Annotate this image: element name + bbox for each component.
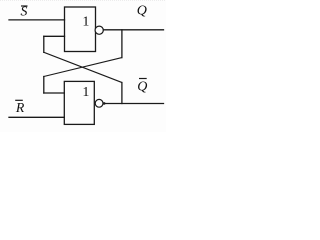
wire right vertical to Q-bar output — [121, 83, 123, 104]
wire left vertical to U2 upper input — [43, 77, 45, 94]
svg-text:Q: Q — [137, 3, 147, 18]
wire feedback diagonal A — [44, 52, 122, 82]
wire S input — [9, 19, 65, 21]
svg-text:1: 1 — [82, 15, 89, 30]
U1 inversion bubble — [95, 26, 103, 34]
decorative top dotted edge — [0, 0, 165, 1]
NAND gate U1 body — [65, 7, 96, 52]
wire feedback diagonal B — [44, 58, 122, 77]
svg-text:Q: Q — [137, 79, 147, 94]
wire right vertical from Q output — [121, 30, 123, 58]
wire Q output — [103, 29, 163, 31]
svg-text:R: R — [15, 100, 25, 115]
svg-text:1: 1 — [82, 85, 89, 100]
wire U1 lower input vertical — [43, 36, 45, 52]
wire R input — [9, 116, 64, 118]
wire U2 upper input horizontal — [44, 92, 65, 94]
U2 inversion bubble — [95, 99, 103, 107]
wire U1 lower input horizontal — [44, 35, 65, 37]
wire Q-bar output — [103, 103, 163, 105]
junction dot at U2 output — [103, 102, 106, 105]
NAND gate U2 body — [64, 81, 94, 124]
